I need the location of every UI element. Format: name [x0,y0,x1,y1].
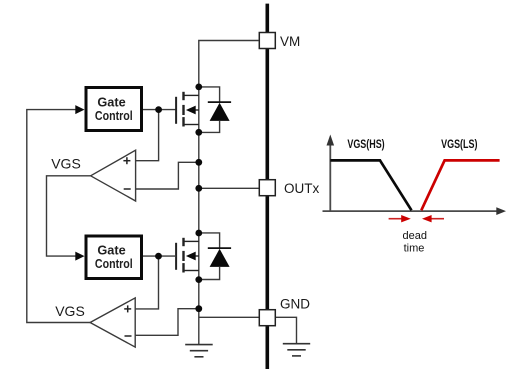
ground (right) [283,344,310,356]
svg-text:Gate: Gate [97,244,125,258]
svg-text:Control: Control [95,109,133,123]
svg-text:GND: GND [280,297,310,312]
wire: top gate drive [143,109,176,111]
ground (left) [185,345,213,357]
terminal OUTx [259,180,275,196]
graph x-axis [323,210,499,212]
node dot: top source junction [195,129,202,136]
op-amp U1 (top Gate Control block) [86,88,142,131]
svg-text:VGS: VGS [55,303,85,319]
wire: phase rail vertical [198,87,200,344]
diode D1 (high-side body diode) [199,87,231,132]
wire: GND terminal left [199,316,260,318]
op-amp U3 (top VGS comparator) [91,150,136,201]
dead time arrow left [389,218,403,220]
wire: VM connection [199,41,259,87]
terminal GND [259,310,275,326]
bus (thick vertical pin column) [265,4,269,369]
svg-text:VM: VM [280,34,300,49]
dead time arrow right [430,218,444,220]
transistor Q1 body arrow [186,106,196,115]
svg-text:OUTx: OUTx [284,181,319,196]
op-amp U2 (bottom Gate Control block) [86,236,142,279]
wire: top comparator output to bottom Gate Control input [47,176,91,256]
node dot: top gate wire junction [155,106,162,113]
node dot: minus tap junction [195,159,202,166]
transistor Q2 (low-side MOSFET) [176,238,199,273]
node dot: bottom source junction [195,276,202,283]
svg-text:Gate: Gate [97,96,125,110]
transistor Q1 (high-side MOSFET) [176,92,199,127]
wire: bottom comparator minus input tap [135,309,199,336]
node dot: OUTx tap junction [195,185,202,192]
wire: bottom comparator plus input tap [135,256,158,309]
op-amp U4 (bottom VGS comparator) [90,298,135,347]
svg-text:VGS: VGS [51,156,81,172]
wire: GND terminal right to ground [275,317,296,343]
waveform VGS(LS) red [421,160,499,210]
wire: OUTx tap [199,187,260,189]
terminal VM [259,33,275,49]
svg-text:Control: Control [95,257,133,271]
svg-text:time: time [404,242,425,254]
svg-text:VGS(LS): VGS(LS) [441,139,477,151]
wire: bottom comparator output to top Gate Control input [27,110,90,323]
arrowhead into top Gate Control [75,105,84,114]
node dot: top drain junction [195,84,202,91]
wire: bottom gate drive [143,255,176,257]
wire: top comparator minus input tap [136,162,199,189]
arrowhead into bottom Gate Control [75,252,84,261]
node dot: ground junction [195,305,202,312]
svg-text:VGS(HS): VGS(HS) [347,139,384,151]
node dot: bottom drain junction [195,230,202,237]
waveform VGS(HS) black [330,160,411,210]
wire: top comparator plus input tap [136,110,159,161]
diode D2 (low-side body diode) [199,233,231,280]
node dot: bottom gate wire junction [155,253,162,260]
svg-text:dead: dead [402,230,426,242]
graph y-axis [329,143,331,212]
transistor Q2 body arrow [186,252,196,261]
